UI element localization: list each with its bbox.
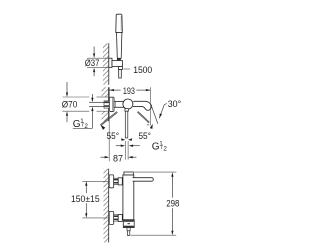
holder arm	[112, 61, 122, 67]
30 deg leader	[159, 104, 167, 119]
G 1/2 outlet dimension arrows	[116, 145, 121, 147]
holder wall plate	[109, 58, 112, 67]
lever (front)	[133, 178, 154, 182]
svg-text:2: 2	[84, 123, 88, 130]
dimension Ø37 extension lines	[87, 57, 109, 59]
spout tip end face	[146, 104, 152, 110]
wall hatch (shower holder wall)	[103, 43, 109, 84]
handle dark tip in holder	[117, 58, 121, 61]
dimension 193 line + arrows	[109, 89, 120, 91]
svg-text:55°: 55°	[107, 130, 120, 141]
wall line upper segment	[108, 87, 110, 101]
G 1/2 supply thread dimension arrows	[91, 94, 93, 98]
lower thread stub	[114, 215, 119, 221]
hose	[119, 70, 122, 78]
svg-text:1500: 1500	[133, 64, 152, 75]
lever stem collar	[125, 109, 128, 112]
upper escutcheon	[109, 175, 114, 188]
escutcheon (wall rosette, side)	[109, 97, 114, 111]
supply tube	[89, 101, 105, 103]
lever swing right arc arrow	[150, 124, 153, 129]
dimension Ø70 extension lines	[63, 96, 90, 98]
svg-text:Ø70: Ø70	[62, 99, 78, 110]
svg-text:87: 87	[113, 152, 123, 163]
hose nut	[119, 67, 123, 70]
svg-text:2: 2	[163, 145, 167, 152]
stem extension bars	[125, 141, 127, 160]
upper union nut	[118, 178, 122, 185]
dimension 193 extension lines	[108, 87, 110, 97]
lever swing arc arrowheads at stem	[121, 138, 125, 141]
wall line lower segment	[108, 108, 110, 121]
svg-text:Ø37: Ø37	[85, 57, 100, 68]
hose stub	[127, 231, 130, 236]
dimension 150 extension lines	[82, 180, 109, 182]
svg-text:30°: 30°	[168, 98, 182, 109]
lever cap circle	[123, 99, 133, 109]
wall line	[108, 169, 110, 243]
upper thread stub	[114, 178, 119, 184]
dimension 87 arrows	[100, 156, 105, 158]
outlet nipple	[127, 228, 130, 231]
svg-text:150±15: 150±15	[71, 193, 100, 204]
dimension 298 line + arrows	[171, 176, 173, 197]
dimension Ø37 line + arrows	[93, 47, 95, 55]
spout bottom edge	[133, 106, 146, 109]
wall line	[108, 43, 110, 84]
lever stem	[125, 111, 128, 138]
hose outlet nut	[123, 220, 134, 228]
svg-text:298: 298	[166, 198, 179, 209]
leader line 1500	[124, 68, 131, 70]
spout top edge	[133, 101, 150, 104]
dimension Ø70 line + arrows	[66, 82, 68, 93]
lower union nut	[118, 214, 122, 221]
dimension 87 left extension line	[108, 112, 110, 161]
wall hatch (front view wall)	[104, 169, 109, 243]
wall hatch lower	[102, 112, 109, 122]
body top cap	[124, 172, 133, 175]
hand shower handle	[117, 32, 122, 58]
hand shower head	[116, 14, 123, 32]
thread block	[104, 101, 109, 108]
dimension 298 extension lines	[134, 171, 176, 173]
dimension 150 line + arrows	[85, 186, 87, 194]
svg-text:193: 193	[123, 85, 135, 96]
lever swing left arc arrow	[101, 125, 106, 130]
faucet body	[114, 101, 124, 107]
lower escutcheon	[109, 212, 114, 225]
lever swing right (rotated lever outline)	[138, 111, 150, 122]
wall hatch upper	[102, 87, 109, 97]
faucet body (front)	[123, 175, 134, 220]
dimension Ø37 text	[84, 59, 100, 66]
svg-text:55°: 55°	[139, 130, 152, 141]
lever swing left (rotated lever outline)	[100, 112, 117, 125]
head shading line	[120, 16, 122, 31]
spout angle reference line (30 deg)	[152, 106, 158, 123]
